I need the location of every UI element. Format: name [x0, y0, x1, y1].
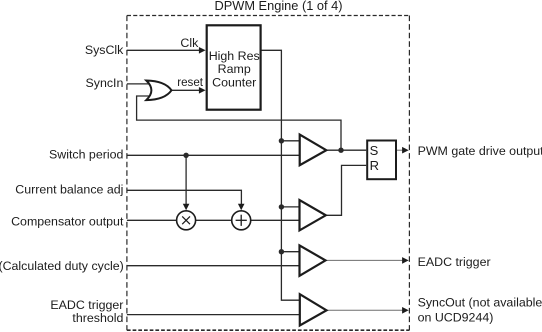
svg-text:Counter: Counter	[212, 76, 256, 90]
svg-text:DPWM Engine (1 of 4): DPWM Engine (1 of 4)	[214, 0, 342, 13]
svg-text:High Res: High Res	[209, 49, 260, 63]
svg-text:SyncOut (not available: SyncOut (not available	[418, 296, 542, 310]
svg-text:Ramp: Ramp	[218, 62, 251, 76]
svg-text:S: S	[370, 143, 379, 158]
svg-text:on UCD9244): on UCD9244)	[418, 310, 494, 324]
svg-text:EADC trigger: EADC trigger	[418, 255, 491, 269]
svg-text:Clk: Clk	[180, 36, 199, 50]
svg-text:Switch period: Switch period	[49, 148, 123, 162]
svg-text:PWM gate drive output: PWM gate drive output	[418, 144, 542, 158]
svg-text:Compensator output: Compensator output	[11, 215, 124, 229]
svg-text:R: R	[370, 158, 379, 173]
svg-text:Current balance adj: Current balance adj	[15, 183, 123, 197]
svg-text:threshold: threshold	[72, 311, 123, 325]
svg-text:EADC trigger: EADC trigger	[50, 298, 123, 312]
svg-text:SysClk: SysClk	[85, 43, 124, 57]
svg-text:reset: reset	[177, 76, 204, 89]
svg-text:(Calculated duty cycle): (Calculated duty cycle)	[0, 259, 124, 273]
svg-text:SyncIn: SyncIn	[86, 76, 124, 90]
